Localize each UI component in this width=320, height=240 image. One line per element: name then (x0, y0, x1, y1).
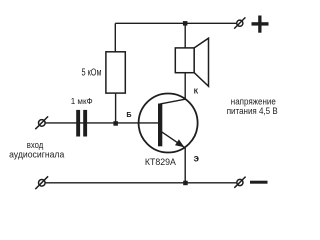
svg-text:аудиосигнала: аудиосигнала (9, 149, 64, 159)
svg-text:1 мкФ: 1 мкФ (71, 97, 93, 106)
svg-text:К: К (194, 87, 199, 96)
svg-text:Б: Б (126, 110, 131, 119)
svg-text:КТ829А: КТ829А (145, 156, 177, 167)
svg-text:5 кОм: 5 кОм (82, 68, 102, 79)
svg-text:питания 4,5 В: питания 4,5 В (227, 106, 278, 116)
svg-text:напряжение: напряжение (231, 97, 276, 107)
svg-text:э: э (194, 153, 200, 164)
